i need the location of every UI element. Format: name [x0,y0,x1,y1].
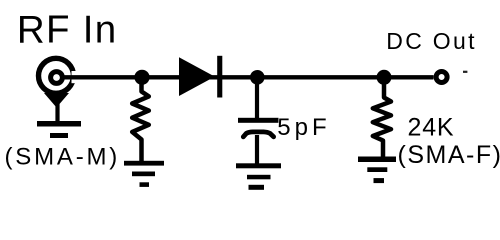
node B junction dot [250,70,265,85]
svg-text:RF In: RF In [17,8,118,51]
node A junction dot [134,70,149,85]
ring gap at wire exit [72,71,80,83]
wire J1 ground stub [55,104,59,122]
svg-text:24K: 24K [408,114,455,142]
diode D1 cathode bar [217,56,222,98]
diode D1 triangle [179,57,215,96]
connector J1 center pin [51,72,63,84]
ground C1 [236,163,281,190]
svg-text:(SMA-M): (SMA-M) [5,143,121,170]
capacitor C1 top plate [238,118,279,123]
terminal DC Out (open circle) [436,72,447,83]
wire capacitor bottom stub [255,135,259,164]
ground J1 [37,121,81,138]
svg-text:DC Out: DC Out [386,28,476,54]
resistor R1 zigzag [132,84,149,161]
connector J1 shell triangle [44,93,69,108]
resistor R2 24K zigzag [373,84,391,158]
connector J1 SMA-M outer ring [39,58,74,93]
ground R1 [124,161,164,187]
node C junction dot [377,70,392,85]
svg-text:5pF: 5pF [277,114,330,141]
svg-text:(SMA-F): (SMA-F) [398,141,500,169]
ground R2 [358,157,396,184]
capacitor C1 bottom plate (curved) [243,132,273,137]
stray dash mark [463,71,467,73]
wire capacitor top stub [255,84,259,118]
wire main horizontal [62,75,434,79]
